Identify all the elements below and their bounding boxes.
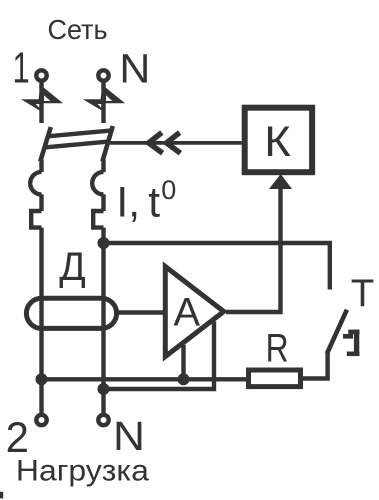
wire amp output to K xyxy=(226,188,281,312)
arrow into K xyxy=(269,174,292,189)
wire amp pin to line B xyxy=(104,322,215,390)
wire resistor to test blade xyxy=(303,353,328,379)
breaker blade pole 1 xyxy=(40,127,51,162)
differential transformer oval xyxy=(26,298,116,328)
wire blade2 to box K xyxy=(107,141,242,145)
wire test branch from node N to test contact xyxy=(104,243,330,290)
svg-text:0: 0 xyxy=(161,175,176,205)
svg-text:N: N xyxy=(119,46,150,92)
terminal N bottom circle xyxy=(98,415,108,425)
test button blade xyxy=(327,310,347,354)
breaker contact arrows pole 1 xyxy=(21,85,63,111)
svg-text:Нагрузка: Нагрузка xyxy=(16,454,150,487)
thermal-magnetic release pole 1: coil arc xyxy=(39,160,43,173)
node: poleN line B junction xyxy=(98,383,110,395)
svg-text:1: 1 xyxy=(13,45,30,93)
terminal N top circle xyxy=(98,70,108,80)
svg-text:t: t xyxy=(148,179,160,226)
terminal 2 circle xyxy=(36,415,46,425)
svg-text:Т: Т xyxy=(351,271,375,315)
op-amp A triangle xyxy=(165,267,224,357)
wire line A bus xyxy=(42,377,249,381)
svg-text:I,: I, xyxy=(116,179,140,226)
wire pole1 down through transformer xyxy=(39,228,43,413)
thermal release pole N: square notch xyxy=(93,211,103,228)
wire poleN down through transformer xyxy=(101,228,105,413)
thermal-magnetic release pole N: coil arc xyxy=(101,160,105,173)
wire amp pin to line A xyxy=(181,345,185,379)
svg-text:R: R xyxy=(266,326,289,370)
resistor R1 body xyxy=(249,370,301,387)
wire poleN top stem xyxy=(101,82,105,123)
breaker contact arrows pole N xyxy=(83,85,125,111)
mechanical linkage upper line xyxy=(47,130,112,136)
wire pole1 top stem xyxy=(39,82,43,123)
svg-text:Сеть: Сеть xyxy=(48,14,108,45)
relay box K xyxy=(245,108,312,173)
svg-text:К: К xyxy=(264,118,291,166)
svg-text:N: N xyxy=(113,413,145,459)
node: pole1 line A junction xyxy=(36,373,48,385)
mechanical linkage lower line xyxy=(45,141,110,147)
breaker blade pole N xyxy=(102,126,112,162)
terminal 1 circle xyxy=(36,70,46,80)
node: amp pin line A junction xyxy=(178,373,190,385)
node: test branch junction xyxy=(98,237,110,249)
thermal release pole 1: square notch xyxy=(31,211,41,228)
wire transformer to amplifier xyxy=(117,310,166,314)
trip arrows chevrons xyxy=(149,133,163,154)
test button actuator xyxy=(343,330,360,356)
svg-text:Д: Д xyxy=(59,245,85,289)
ink mark bottom-left edge xyxy=(0,492,3,499)
svg-text:А: А xyxy=(174,290,201,334)
